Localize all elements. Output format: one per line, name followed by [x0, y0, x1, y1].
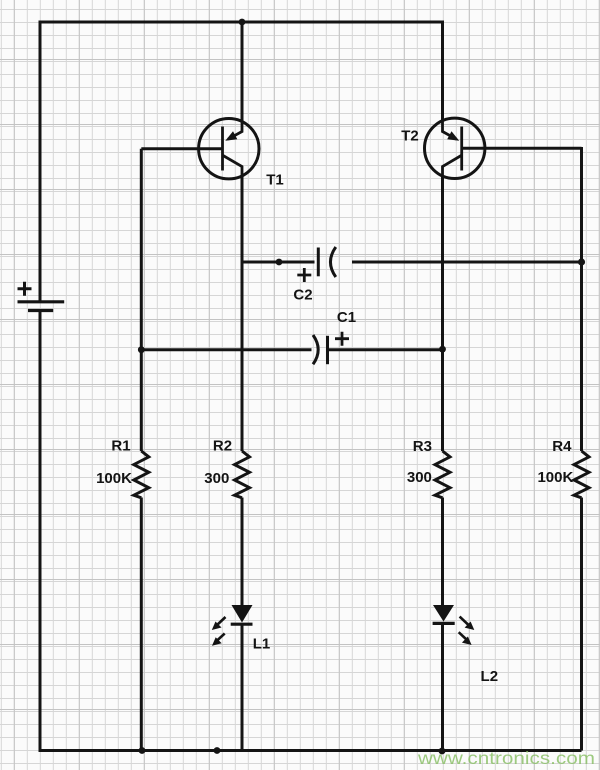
svg-text:T1: T1: [266, 172, 284, 189]
wire: C1 left plate to T1 base branch: [141, 348, 311, 351]
junction: C2 wire / right rail: [578, 258, 585, 265]
capacitor C2: [297, 247, 336, 282]
wire: battery - down to bottom rail: [39, 312, 42, 751]
junction: LED L2 branch / bottom rail: [439, 748, 446, 755]
svg-text:300: 300: [204, 470, 229, 487]
svg-text:R1: R1: [111, 438, 130, 455]
wire: R2 to LED L1 anode: [241, 498, 244, 607]
svg-text:www.cntronics.com: www.cntronics.com: [417, 748, 595, 768]
wire: top positive rail: [39, 21, 443, 24]
svg-text:C2: C2: [293, 287, 312, 304]
wire: T1 base lead: [141, 147, 222, 150]
svg-text:300: 300: [407, 469, 432, 486]
wire: C2 right plate to T2 base rail: [352, 261, 582, 264]
wire: T2 base lead to right rail: [462, 147, 582, 150]
resistor R3: [435, 451, 450, 498]
wire: LED L1 cathode to bottom rail: [241, 624, 244, 750]
svg-text:C1: C1: [337, 309, 356, 326]
capacitor C1: [313, 332, 349, 365]
svg-text:L1: L1: [253, 636, 271, 653]
resistor R4: [574, 451, 589, 498]
junction: C1 wire / T2 collector: [439, 346, 446, 353]
wire: right rail R4 to bottom rail: [580, 498, 583, 751]
wire: T1 collector down to R2: [241, 177, 244, 452]
junction: C2 wire dot: [276, 259, 283, 266]
wire: T1 collector to C2 left plate: [242, 261, 315, 264]
svg-text:L2: L2: [481, 668, 499, 685]
battery B1: [18, 282, 65, 311]
wire: T1 emitter lead to top rail: [241, 22, 244, 122]
junction: top rail / T1 emitter: [239, 19, 246, 26]
wire: right rail T2 base to R4: [580, 147, 583, 451]
wire: T2 collector down to R3: [441, 177, 444, 452]
resistor R2: [235, 451, 250, 498]
svg-text:R4: R4: [552, 438, 572, 455]
LED L2: [433, 605, 475, 645]
wire: R1 to bottom rail: [140, 498, 143, 751]
LED L1: [212, 605, 253, 646]
resistor R1: [134, 451, 149, 498]
wire: bottom negative rail: [39, 749, 582, 752]
svg-text:R2: R2: [213, 438, 232, 455]
wire: R3 to LED L2 anode: [441, 498, 444, 607]
wire: T1 base branch down to R1: [140, 149, 143, 451]
junction: bottom rail dot: [214, 747, 221, 754]
wire: C1 right plate to T2 collector: [329, 348, 443, 351]
wire: T2 emitter lead drop from top rail: [441, 21, 444, 122]
svg-text:R3: R3: [413, 438, 432, 455]
svg-text:100K: 100K: [96, 470, 132, 487]
wire: LED L2 cathode to bottom rail: [441, 623, 444, 750]
transistor T2: [425, 118, 485, 178]
svg-text:T2: T2: [401, 128, 419, 145]
wire: left rail battery + up to top rail: [39, 22, 42, 301]
junction: R1 branch / bottom rail: [139, 747, 146, 754]
svg-text:100K: 100K: [537, 469, 573, 486]
transistor T1: [199, 119, 259, 179]
junction: T1 base branch / C1 wire: [138, 346, 145, 353]
